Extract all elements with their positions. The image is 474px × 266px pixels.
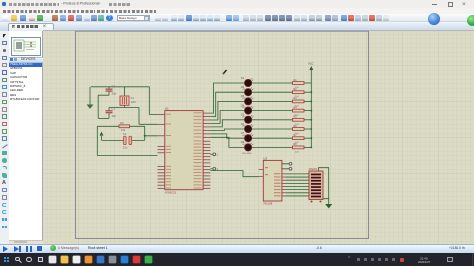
wire P3 to U2 [210,171,258,177]
wire rst [145,126,158,140]
left mode toolbar [0,31,9,244]
svg-text:LED-RED: LED-RED [242,153,252,155]
svg-text:DSW1: DSW1 [309,167,318,171]
crystal X1 [120,87,136,108]
chip U2 [259,156,292,205]
ground dsw [325,199,332,209]
preview box [11,37,41,56]
wire LED2 to R [252,91,293,93]
resistor R7 [293,134,305,144]
LED D3 [241,95,253,109]
resistor R4 [293,106,305,116]
cursor [223,70,227,74]
wire top xtal [91,86,149,88]
wire c2 bottom [98,95,109,118]
canvas [43,30,474,244]
capacitor C2 [106,85,117,96]
object selector panel [9,31,43,241]
svg-text:AT89C51: AT89C51 [165,191,177,195]
tab bar [0,22,474,31]
svg-text:74LS08: 74LS08 [263,202,273,206]
capacitor C3 [106,107,117,119]
resistor R3 [293,97,305,107]
wire R4 to rail [304,110,311,112]
junction rst [144,135,146,137]
wire bottom loop [97,126,157,155]
wire LED8 to R [252,146,293,148]
wire c3 bottom [98,117,109,119]
resistor R2 [293,88,305,98]
toolbar [0,14,474,22]
svg-text:C2: C2 [112,85,116,89]
sheet border [76,31,369,238]
svg-text:30p: 30p [112,92,117,96]
DEVICES header [9,57,43,63]
wires P0 to LEDs [210,83,244,147]
svg-text:10u: 10u [123,146,128,150]
wire LED4 to R [252,110,293,112]
wire LED1 to R [252,82,293,84]
resistor R6 [293,125,305,135]
resistor R1 [293,79,305,89]
wire vcc rail [310,70,312,147]
ground [87,105,94,109]
LED D8 [241,141,253,155]
wire LED6 to R [252,128,293,130]
resistor R8 [293,143,305,153]
wire LED3 to R [252,100,293,102]
wire LED7 to R [252,137,293,139]
power vcc left [100,132,104,141]
LED D7 [241,132,253,146]
svg-text:30p: 30p [112,114,117,118]
svg-text:VCC: VCC [308,62,314,66]
title bar [0,0,474,8]
wire R3 to rail [304,100,311,102]
svg-text:U1: U1 [165,107,169,111]
wire R2 to rail [304,91,311,93]
svg-text:R9: R9 [120,121,124,125]
floating overlay buttons [428,13,440,25]
taskbar [0,253,474,266]
power VCC [308,62,314,71]
terminal t1 [210,153,218,157]
svg-text:U2: U2 [263,156,267,160]
resistor R9 [97,121,144,132]
LED D2 [241,86,253,100]
wire LED5 to R [252,119,293,121]
LED D1 [241,77,253,91]
wire R7 to rail [304,137,311,139]
resistor R5 [293,116,305,126]
mcu U1 AT89C51 [158,107,211,195]
svg-text:C1: C1 [123,132,127,136]
LED D6 [241,123,253,137]
wire R5 to rail [304,119,311,121]
wire xtal1 [149,87,157,115]
capacitor C1 [102,132,145,150]
LED D5 [241,114,253,128]
wires U2 to DSW1 [286,174,309,196]
dip switch DSW1 [309,167,323,203]
svg-text:12M: 12M [131,100,136,104]
wire R1 to rail [304,82,311,84]
menu bar [0,8,474,14]
wire xtal2 [109,108,158,125]
terminal t2 [210,167,218,170]
device list [9,63,43,67]
status bar [0,244,474,254]
wire R6 to rail [304,128,311,130]
wire R8 to rail [304,146,311,148]
wire gnd rail [89,87,91,105]
wire DSW to gnd [319,168,329,199]
mode toolbar icons [3,34,6,38]
LED D4 [241,104,253,118]
svg-text:X1: X1 [131,96,135,100]
